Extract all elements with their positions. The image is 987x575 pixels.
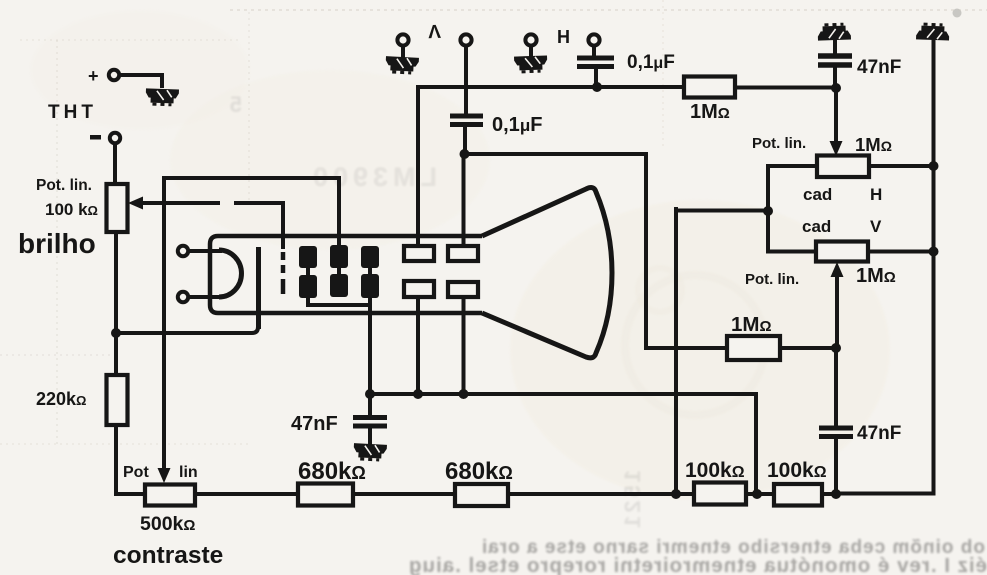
- svg-text:100 kΩ: 100 kΩ: [45, 200, 98, 219]
- svg-text:H: H: [870, 185, 882, 204]
- ground symbol (middle): [353, 443, 387, 462]
- wire to heater top: [189, 249, 220, 253]
- ground symbol (above 47nF top right): [817, 22, 851, 40]
- svg-text:Pot: Pot: [123, 464, 149, 481]
- wire cap to node H: [594, 69, 598, 87]
- svg-text:contraste: contraste: [113, 542, 223, 569]
- svg-text:cad: cad: [803, 185, 832, 204]
- deflection plate bottom-left: [404, 281, 434, 297]
- wire bottom-right plate to node D: [462, 297, 466, 394]
- node C junction: [460, 149, 470, 159]
- capacitor 0,1uF (V): [450, 116, 483, 125]
- wire pin3 down to node D: [368, 310, 372, 394]
- wire cap to bus: [834, 439, 838, 494]
- resistor 1M (top): [684, 77, 735, 98]
- node A junction: [111, 328, 121, 338]
- terminal - (THT negative): [90, 133, 120, 143]
- wiper arrow of contraste pot: [158, 468, 171, 483]
- svg-text:1521: 1521: [620, 470, 645, 531]
- svg-text:+: +: [88, 66, 99, 86]
- wire node C to V bias: [465, 154, 728, 348]
- ground (top left): [145, 88, 179, 106]
- svg-text:cad: cad: [802, 217, 831, 236]
- svg-text:680kΩ: 680kΩ: [445, 458, 513, 485]
- wire pot bottom to node A: [114, 232, 118, 333]
- wire pot V left end: [768, 250, 816, 254]
- CRT socket terminal upper: [178, 246, 188, 256]
- node pots left link junction: [763, 206, 773, 216]
- node right rail / pot H junction: [929, 161, 939, 171]
- wire top-left plate riser to H bus: [416, 87, 420, 246]
- wire cap to node B: [833, 68, 837, 88]
- capacitor 47nF (top right): [818, 56, 852, 65]
- node bus junction right: [831, 489, 841, 499]
- svg-text:1MΩ: 1MΩ: [856, 265, 896, 287]
- potentiometer contraste 500k: [145, 485, 195, 506]
- wire pot V right end: [868, 250, 934, 254]
- pin column 3 squares: [361, 246, 379, 310]
- resistor 100k (2): [774, 484, 822, 506]
- node H junction: [592, 82, 602, 92]
- wire - terminal to pot: [113, 144, 117, 184]
- wire node D to cap 47nF (middle): [368, 394, 372, 414]
- wire V terminal to cap: [464, 46, 468, 112]
- node bus junction left: [671, 489, 681, 499]
- wire top-right plate riser to V node: [462, 154, 466, 246]
- wire 1M to node E: [780, 346, 836, 350]
- terminal H input: [588, 34, 599, 45]
- svg-text:47nF: 47nF: [857, 423, 901, 444]
- node D junctions: [365, 389, 375, 399]
- svg-text:Pot. lin.: Pot. lin.: [36, 177, 92, 194]
- wire pot H left end: [768, 166, 817, 251]
- resistor 1M (middle): [727, 336, 780, 360]
- CRT socket box: [210, 236, 482, 313]
- wiper arrow of brilho pot: [128, 197, 283, 210]
- CRT socket terminal lower: [178, 292, 188, 302]
- contraste riser wire: [164, 178, 339, 467]
- wiper arrow cad H: [830, 141, 843, 156]
- svg-text:V: V: [427, 20, 441, 41]
- ground symbol (left of H): [514, 55, 548, 73]
- ground terminal (left of H): [525, 34, 536, 45]
- wire bottom-left plate to node D: [416, 297, 420, 394]
- grid electrode (dashed): [281, 252, 286, 294]
- vertical wire x676: [674, 209, 678, 494]
- ground terminal (left of V): [397, 34, 408, 45]
- capacitor 47nF (middle): [353, 418, 387, 427]
- svg-text:220kΩ: 220kΩ: [36, 389, 86, 409]
- wire ground to cap: [833, 38, 837, 53]
- CRT funnel and screen: [482, 188, 612, 358]
- wire cap to ground: [368, 428, 372, 443]
- svg-text:Pot. lin.: Pot. lin.: [752, 135, 806, 152]
- bottom bleed-through text: [408, 537, 987, 575]
- wire stem: [401, 46, 405, 57]
- svg-text:500kΩ: 500kΩ: [140, 513, 195, 535]
- wire node A to 220k: [114, 333, 118, 375]
- ground symbol (top far right): [916, 22, 950, 40]
- svg-text:Pot. lin.: Pot. lin.: [745, 271, 799, 288]
- CRT cathode electrode: [257, 249, 261, 327]
- resistor 100k (1): [694, 483, 746, 505]
- svg-text:éiz I .rev é omonótua etnemroi: éiz I .rev é omonótua etnemroiretni rore…: [408, 554, 987, 575]
- wire pin1 internal link: [308, 296, 370, 305]
- wire grid riser: [281, 203, 285, 247]
- svg-text:H: H: [557, 27, 570, 47]
- svg-text:lin: lin: [179, 464, 198, 481]
- resistor 680k (1): [298, 484, 353, 506]
- svg-text:THT: THT: [48, 102, 97, 123]
- wire + terminal to ground: [120, 75, 162, 86]
- terminal V input: [460, 34, 471, 45]
- CRT heater filament arc: [219, 250, 241, 297]
- wire stem: [529, 46, 533, 56]
- pin column 1 squares: [299, 246, 317, 298]
- potentiometer brilho 100k (vertical): [107, 184, 128, 232]
- node E junction: [831, 343, 841, 353]
- node D wire (plates return): [370, 394, 756, 494]
- terminal + (THT positive): [88, 66, 119, 86]
- svg-text:5: 5: [230, 92, 242, 117]
- svg-text:0,1μF: 0,1μF: [492, 114, 542, 136]
- potentiometer cad H 1M: [817, 156, 869, 178]
- capacitor 47nF (right): [819, 428, 853, 437]
- wire pot H right end: [869, 164, 934, 168]
- wire link to vertical x676: [676, 209, 768, 213]
- svg-text:1MΩ: 1MΩ: [855, 134, 892, 155]
- node B junction: [831, 83, 841, 93]
- ground symbol (left of V): [385, 56, 419, 75]
- wire node B to pot cad H wiper: [834, 88, 838, 142]
- svg-text:brilho: brilho: [18, 228, 96, 259]
- deflection plate top-right: [448, 246, 478, 261]
- paper background tint blobs: [30, 10, 890, 500]
- wire H terminal to cap: [592, 46, 596, 54]
- wire to heater bottom: [189, 295, 220, 299]
- node right rail / pot V junction: [929, 247, 939, 257]
- H bus wire: [418, 85, 684, 89]
- resistor 680k (2): [455, 484, 508, 506]
- wire right rail to bottom bus: [836, 166, 934, 494]
- wire 1M to node B: [735, 86, 836, 90]
- wire node E to cap 47nF: [834, 348, 838, 424]
- capacitor 0,1uF (H): [577, 58, 614, 67]
- resistor 220k: [107, 375, 128, 425]
- potentiometer cad V 1M: [816, 242, 868, 262]
- deflection plate top-left: [404, 246, 434, 261]
- wire 220k to bus: [116, 425, 145, 494]
- svg-text:0,1μF: 0,1μF: [627, 52, 675, 73]
- wire cathode return: [116, 249, 258, 333]
- svg-text:1MΩ: 1MΩ: [690, 101, 730, 123]
- wire cad V wiper to node E: [835, 277, 839, 348]
- svg-text:47nF: 47nF: [291, 413, 338, 435]
- pin column 2 squares: [330, 245, 348, 297]
- svg-text:47nF: 47nF: [857, 57, 901, 78]
- node bus junction middle: [752, 489, 762, 499]
- wire cap to node C: [463, 127, 467, 154]
- deflection plate bottom-right: [448, 282, 478, 297]
- bottom bus wire: [117, 492, 836, 496]
- wire right rail down: [932, 38, 936, 166]
- wiper arrow cad V: [831, 262, 844, 277]
- svg-text:680kΩ: 680kΩ: [298, 458, 366, 485]
- svg-text:V: V: [870, 217, 882, 236]
